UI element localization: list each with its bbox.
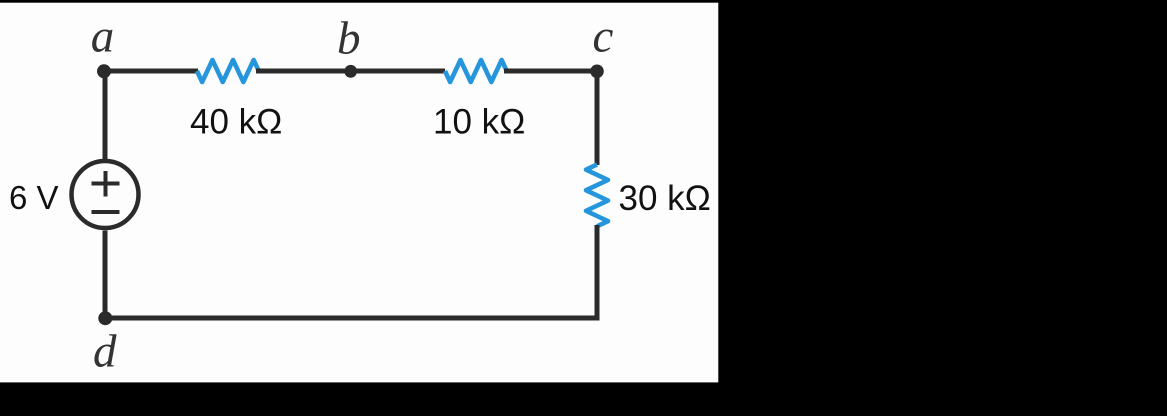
svg-text:a: a: [91, 11, 115, 63]
node a (junction dot): [97, 64, 111, 78]
wire node c down to 30 kΩ resistor: [595, 69, 600, 166]
svg-text:6 V: 6 V: [9, 179, 59, 216]
svg-text:c: c: [592, 11, 613, 63]
node c (junction dot): [590, 65, 604, 79]
svg-text:b: b: [337, 13, 361, 65]
resistor R3 30 kΩ (vertical zigzag): [586, 165, 608, 227]
svg-text:30 kΩ: 30 kΩ: [619, 179, 711, 218]
wire 10 kΩ resistor to node c: [504, 69, 596, 74]
wire node a to 40 kΩ resistor (top left segment): [104, 69, 198, 74]
wire node a down to voltage source top: [103, 69, 108, 160]
voltage source V1 circle (6 V): [72, 161, 139, 228]
wire 40 kΩ resistor to node b to 10 kΩ resistor: [256, 69, 445, 74]
wire voltage source bottom down to node d: [103, 231, 108, 319]
node d (junction dot): [98, 311, 112, 325]
node b (junction dot): [344, 65, 357, 78]
voltage source minus sign: [92, 210, 120, 214]
resistor R2 10 kΩ (zigzag): [445, 60, 507, 82]
voltage source plus sign: [92, 171, 120, 197]
svg-text:10 kΩ: 10 kΩ: [433, 103, 525, 142]
svg-text:d: d: [93, 326, 117, 378]
wire 30 kΩ resistor down to bottom-right corner: [595, 225, 600, 318]
wire bottom node d to bottom-right corner: [105, 316, 600, 321]
resistor R1 40 kΩ (zigzag): [197, 60, 259, 82]
svg-text:40 kΩ: 40 kΩ: [190, 103, 282, 142]
